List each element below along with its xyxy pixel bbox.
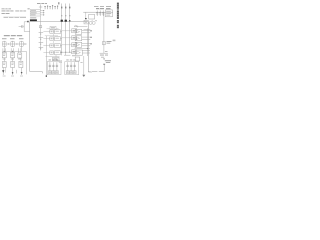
capacitor C8: [74, 62, 76, 70]
wire out6: [82, 52, 90, 54]
wire U11 out2: [82, 38, 91, 40]
ground: [82, 75, 85, 77]
note text line 3: [4, 16, 27, 19]
wire U10 out2: [82, 32, 91, 34]
label top right c: [106, 5, 111, 8]
oscillator G2: [12, 41, 14, 47]
op-amp U11: [75, 36, 82, 41]
node J3: [69, 15, 70, 16]
cap bank A outline: [47, 62, 61, 75]
rotated text texture: [117, 4, 120, 27]
capacitor R5: [96, 10, 98, 16]
wire unit 3 in: [43, 45, 49, 47]
capacitor C9 wire: [19, 26, 22, 28]
inductor L3: [69, 7, 70, 9]
label D3: [19, 37, 24, 40]
wire: [12, 58, 14, 62]
wire bus V1: [61, 4, 63, 56]
terminal dark: [27, 21, 29, 23]
capacitor R7: [102, 10, 104, 16]
wire bus V3: [69, 4, 71, 53]
wire stub y31.5: [24, 31, 29, 33]
label gnd net: [105, 50, 108, 53]
transistor Q2: [11, 52, 15, 57]
left group title: [4, 35, 10, 36]
cap bank B outline: [65, 62, 79, 75]
inductor L1: [61, 7, 62, 9]
resistor R2: [39, 36, 44, 38]
op-amp U10 symbol: [76, 30, 79, 33]
label caps A1: [49, 59, 51, 62]
capacitor plates A: [49, 65, 58, 66]
oscillator G3: [20, 41, 22, 47]
wire table to box: [40, 16, 42, 22]
IC block K1: [2, 62, 6, 68]
label caps A3: [56, 59, 58, 62]
node dot: [69, 52, 70, 53]
terminal dark: [85, 18, 87, 19]
label top right d: [96, 8, 104, 9]
wire up turn: [23, 22, 25, 32]
capacitor C6: [67, 62, 69, 70]
label top right a: [94, 5, 99, 8]
wire: [45, 36, 47, 75]
terminal small: [103, 64, 105, 65]
op-amp U11 symbol: [76, 37, 79, 40]
label faint mid right: [113, 40, 116, 42]
diode D4: [2, 68, 4, 76]
label near gnd: [80, 61, 82, 64]
resistor R3: [39, 41, 44, 43]
wire unit 4 in: [43, 52, 49, 54]
wire unit 3 out: [60, 45, 62, 47]
wire bus bottom h1: [60, 51, 72, 53]
wire row: [2, 43, 27, 45]
inductor L2: [65, 7, 66, 9]
connector pad A: [61, 20, 63, 22]
wire unit 1 out: [60, 31, 62, 33]
connector P2: [58, 2, 59, 4]
wire corner: [92, 65, 104, 72]
fuse F4: [51, 5, 54, 9]
wire stub: [40, 33, 41, 36]
label under arrows: [3, 75, 6, 78]
wire: [40, 5, 42, 10]
label D1: [2, 37, 7, 40]
capacitor plates B: [66, 65, 75, 66]
connector header table: [30, 10, 40, 16]
wire unit 4 mid: [53, 52, 54, 54]
wire out5: [82, 50, 90, 52]
label TP1: [37, 2, 47, 5]
wire unit 1 mid: [53, 31, 54, 33]
IC U8: [53, 57, 60, 60]
capacitor C4: [56, 62, 58, 70]
logic gate unit 2 large box: [55, 37, 61, 41]
logic gate unit 1 large box: [55, 30, 61, 34]
capacitor C7: [70, 62, 72, 70]
label R8 value: [107, 40, 112, 43]
wire unit 2 in: [43, 38, 49, 40]
resistor R4: [39, 46, 44, 48]
IC block K3: [19, 61, 23, 67]
wire unit 3 mid: [53, 45, 54, 47]
note text line 1: [2, 10, 14, 13]
transistor Q3: [18, 53, 22, 58]
logic gate unit 1 small box: [50, 30, 54, 33]
capacitor C2: [49, 62, 51, 70]
wire pair col2: [10, 48, 12, 52]
wire unit 2 mid: [53, 38, 54, 40]
label under table: [30, 16, 36, 19]
logic gate unit 4 small box: [50, 51, 54, 54]
wire interrow b: [52, 41, 54, 44]
op-amp U13 symbol: [77, 51, 81, 54]
wire bus V2: [65, 4, 67, 56]
node dot: [65, 52, 66, 53]
relay box row1: [72, 29, 77, 33]
logic gate unit 4 large box: [55, 51, 61, 55]
label caps B1: [66, 59, 68, 62]
capacitor C10 tick: [39, 6, 42, 8]
wire gnd drop: [83, 56, 85, 75]
label bottom right a: [105, 59, 111, 62]
coil K5: [89, 21, 92, 24]
ground GND1: [100, 52, 108, 54]
connector pad B: [65, 20, 67, 22]
wire: [20, 58, 22, 61]
node dot row2: [4, 51, 5, 52]
value label box C7: [70, 71, 73, 74]
node dot: [8, 43, 9, 44]
value label box C6: [66, 71, 69, 74]
label caps A4: [59, 60, 62, 62]
wire U10 out1: [82, 30, 91, 32]
wire pair col3: [18, 48, 20, 53]
fuse F2: [46, 6, 49, 10]
wire bottom tick: [41, 72, 43, 74]
wire row2: [2, 50, 26, 52]
inductor curl: [75, 25, 77, 27]
wire stub: [40, 38, 41, 41]
IC U16: [89, 14, 95, 19]
op-amp U12 symbol: [76, 43, 79, 46]
relay box row2: [72, 36, 77, 40]
title block rotated text seg4: [117, 25, 119, 28]
wire long drop: [25, 51, 27, 74]
terminal U11: [90, 37, 92, 38]
logic gate unit 2 small box: [50, 37, 54, 40]
value label box C4: [55, 71, 58, 74]
wire gap mask: [97, 71, 98, 72]
wire drop: [85, 12, 87, 18]
fuse F1: [44, 6, 47, 9]
IC U9 top comp: [84, 20, 88, 24]
IC U17: [105, 10, 112, 17]
connector J5 dark bar: [30, 19, 37, 21]
wire vert op column: [86, 28, 88, 56]
node stub dot1: [43, 10, 44, 11]
logic gate unit 3 large box: [55, 44, 61, 48]
resistor R1: [39, 31, 44, 33]
wire bus bottom h2: [64, 54, 70, 56]
wire unit 2 out: [60, 38, 62, 40]
wire U11 out1: [82, 36, 91, 38]
wire u8 drop: [55, 55, 57, 58]
oscillator G1: [3, 41, 5, 47]
note text line 2: [2, 12, 10, 15]
wire: [74, 26, 87, 28]
resistor R8: [103, 41, 106, 44]
label caps B3: [73, 59, 75, 62]
wire: [3, 58, 5, 62]
capacitor C3: [52, 62, 54, 70]
wire pair col1: [2, 48, 4, 52]
wire bottom left: [30, 71, 43, 73]
diode D5: [12, 68, 14, 76]
label box inner top: [50, 26, 56, 29]
wire unit 1 in: [43, 31, 49, 33]
capacitor C1: [39, 26, 41, 28]
table row text: [31, 9, 36, 12]
label under Q row: [3, 58, 6, 61]
wire stub: [40, 43, 41, 46]
label D2: [10, 37, 15, 40]
diode D6: [21, 68, 23, 75]
relay box row4: [72, 50, 77, 54]
fuse F6: [56, 6, 59, 10]
wire mid h: [46, 56, 60, 58]
title block rotated text seg1: [117, 3, 119, 10]
wire stub row1: [40, 10, 44, 12]
relay box row3: [72, 43, 77, 47]
wire stub row3: [40, 14, 44, 16]
label caps A2: [52, 59, 54, 62]
label bottom right b: [106, 61, 111, 64]
node dot: [24, 43, 25, 44]
label below row4: [72, 54, 75, 57]
node stub dot2: [43, 12, 44, 13]
value label box C3: [52, 71, 55, 74]
note text line 0: [2, 7, 12, 10]
label top right b: [100, 5, 104, 8]
capacitor R6: [99, 10, 101, 16]
IC U14: [75, 57, 79, 61]
wire: [15, 70, 17, 74]
op-amp U12: [75, 42, 82, 47]
node J1: [61, 15, 62, 16]
wire U12 out2: [82, 45, 91, 47]
terminal: [46, 75, 47, 77]
node J2: [65, 15, 66, 16]
wire: [84, 28, 91, 30]
fuse F3: [49, 6, 52, 9]
IC U1 main block outline: [30, 22, 92, 73]
wire right vertical: [103, 12, 105, 53]
wire comp3 down: [20, 47, 22, 51]
wire interrow a: [52, 34, 54, 37]
wire inner vertical: [40, 22, 42, 51]
logic gate unit 3 small box: [50, 44, 54, 47]
terminal U12: [90, 43, 92, 44]
wire stub row2: [40, 12, 44, 14]
terminal U10: [90, 30, 92, 31]
wire horizontal y48.6: [75, 48, 91, 50]
note smudge: [28, 8, 30, 10]
title block rotated text seg2: [117, 10, 119, 19]
op-amp U10: [75, 29, 82, 34]
node dot: [61, 52, 62, 53]
wire U12 out1: [82, 43, 91, 45]
wire stub: [40, 47, 41, 50]
wire top bus: [83, 11, 113, 13]
node dot: [16, 43, 17, 44]
op-amp U13: [75, 50, 82, 55]
label caps B2: [70, 59, 72, 62]
label top right e: [106, 8, 111, 9]
wire tick: [88, 71, 91, 73]
fuse F5: [54, 6, 57, 9]
value label box C8: [73, 71, 76, 74]
transistor Q1: [2, 52, 6, 57]
IC block K2: [11, 62, 15, 68]
node dot: [87, 48, 88, 49]
wire unit 4 out: [60, 52, 62, 54]
title block rotated text seg3: [117, 20, 119, 23]
value label box C2: [48, 71, 51, 74]
wire h mid1: [45, 35, 58, 37]
node stub dot3: [43, 14, 44, 15]
